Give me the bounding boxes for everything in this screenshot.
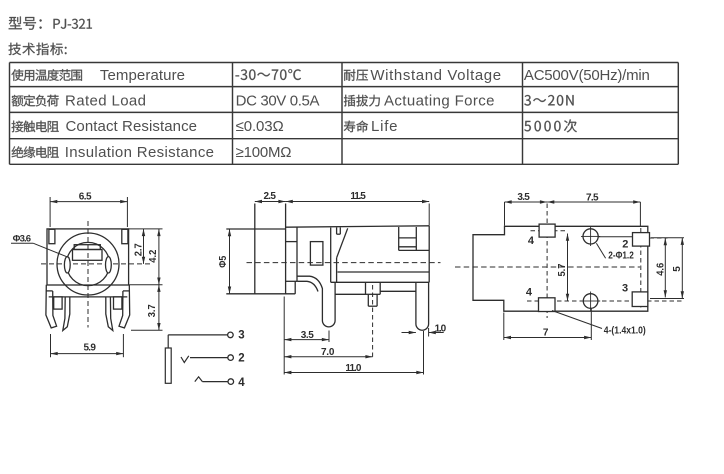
dimension 7.5 — [547, 192, 640, 226]
svg-text:≤0.03Ω: ≤0.03Ω — [236, 118, 284, 135]
svg-text:4-(1.4x1.0): 4-(1.4x1.0) — [604, 326, 646, 337]
side view internal contact — [310, 227, 347, 282]
svg-text:Φ3.6: Φ3.6 — [13, 233, 32, 244]
dimension 11.0 — [284, 331, 423, 375]
svg-text:Life: Life — [371, 118, 398, 135]
dimension 3.5 (side) — [284, 297, 329, 375]
svg-text:11.0: 11.0 — [345, 363, 361, 374]
svg-text:4: 4 — [238, 377, 245, 389]
svg-text:7.0: 7.0 — [321, 347, 335, 358]
table grid — [10, 63, 679, 165]
svg-text:11.5: 11.5 — [350, 191, 366, 202]
dimension 5 — [672, 238, 684, 299]
front view centerlines — [41, 221, 151, 328]
svg-text:DC 30V 0.5A: DC 30V 0.5A — [236, 92, 320, 109]
svg-text:Contact Resistance: Contact Resistance — [66, 118, 198, 135]
top view outline — [473, 226, 648, 311]
front view jack circles — [57, 233, 119, 295]
side view right pin — [416, 282, 429, 330]
svg-text:7: 7 — [543, 328, 549, 339]
schematic contact 4 (switch) — [195, 377, 246, 389]
schematic plug bar — [165, 348, 171, 383]
side view front leg pin — [297, 276, 335, 327]
svg-text:3: 3 — [622, 283, 628, 295]
svg-text:4: 4 — [528, 235, 535, 247]
svg-text:≥100MΩ: ≥100MΩ — [236, 144, 292, 161]
dimension 7.0 — [284, 347, 372, 358]
table row 1 — [12, 67, 650, 84]
side view center pin — [368, 285, 377, 357]
svg-text:5.9: 5.9 — [83, 342, 96, 353]
dimension 4.6 — [650, 238, 684, 299]
dimension 5.9 — [51, 334, 124, 357]
svg-text:2: 2 — [622, 239, 628, 251]
svg-text:Insulation Resistance: Insulation Resistance — [65, 144, 214, 161]
svg-text:5: 5 — [672, 266, 683, 272]
svg-text:2-Φ1.2: 2-Φ1.2 — [608, 251, 634, 262]
dimension 6.5 — [50, 191, 127, 227]
dimension 1.0 — [402, 323, 447, 336]
svg-text:5.7: 5.7 — [557, 263, 568, 276]
heading model number 型号：PJ-321 — [9, 17, 92, 30]
heading 技术指标: — [9, 43, 67, 55]
schematic contact 3 (tip) — [168, 330, 245, 348]
svg-text:3: 3 — [238, 330, 244, 342]
front view body — [47, 229, 129, 285]
dimension 5.7 — [557, 234, 569, 302]
table row 4 — [12, 144, 292, 161]
dimension 4.2 — [129, 229, 163, 285]
svg-text:Actuating Force: Actuating Force — [384, 92, 495, 109]
top view mounting pads — [539, 224, 650, 311]
front view legs — [46, 285, 130, 331]
svg-text:AC500V(50Hz)/min: AC500V(50Hz)/min — [524, 67, 650, 84]
top view holes 2-Φ1.2 — [581, 227, 600, 311]
svg-text:4.6: 4.6 — [656, 262, 667, 275]
svg-text:4: 4 — [526, 287, 533, 299]
label 2-Φ1.2 with leader — [596, 243, 634, 261]
svg-text:2.7: 2.7 — [133, 243, 144, 256]
label 4-(1.4x1.0) with leader — [552, 311, 646, 337]
svg-text:3.5: 3.5 — [517, 192, 530, 203]
svg-text:Φ5: Φ5 — [218, 255, 229, 267]
dimension Φ5 — [218, 229, 231, 294]
svg-text:4.2: 4.2 — [148, 249, 159, 262]
label Φ3.6 with leader — [11, 233, 70, 257]
side view centerline — [247, 262, 441, 264]
table row 3 — [12, 118, 577, 135]
schematic contact 2 (ring/normally-closed) — [181, 352, 245, 364]
side view bottom flange — [335, 282, 416, 294]
line circle to pad 2 — [598, 236, 632, 238]
svg-text:6.5: 6.5 — [79, 191, 92, 202]
svg-text:Rated Load: Rated Load — [65, 92, 146, 109]
dimension 3.5 (top view) — [505, 192, 548, 226]
top view centerlines — [455, 204, 683, 319]
svg-text:2.5: 2.5 — [263, 191, 276, 202]
dimension 7 — [504, 309, 592, 341]
svg-text:1.0: 1.0 — [435, 323, 447, 334]
svg-text:3.5: 3.5 — [301, 330, 314, 341]
svg-text:2: 2 — [238, 352, 244, 364]
dimension 11.5 — [286, 191, 430, 226]
svg-text:Temperature: Temperature — [100, 67, 185, 84]
svg-text:7.5: 7.5 — [586, 192, 599, 203]
dimension 2.5 — [255, 191, 286, 203]
side view body outline — [286, 226, 430, 294]
dimension 2.7 — [129, 229, 163, 264]
dimension 3.7 — [131, 285, 163, 331]
svg-text:Withstand Voltage: Withstand Voltage — [370, 67, 501, 84]
pin number labels — [526, 235, 629, 299]
side view barrel — [226, 204, 295, 294]
table row 2 — [12, 92, 574, 109]
side view terminal box top right — [399, 227, 430, 250]
svg-text:3.7: 3.7 — [147, 304, 158, 317]
